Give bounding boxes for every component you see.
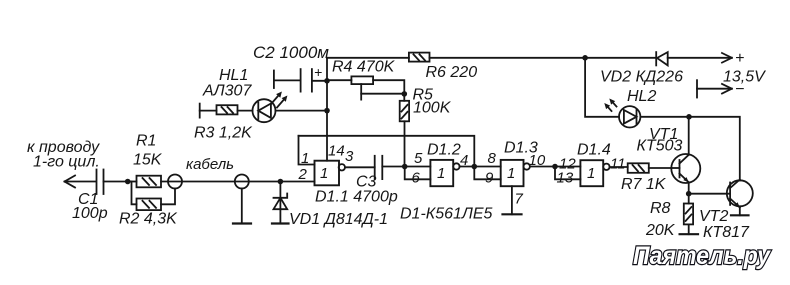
svg-text:+: +: [314, 64, 322, 80]
LED HL2: [604, 99, 689, 128]
wire D1.4 pin12: [555, 166, 580, 168]
svg-text:R2 4,3K: R2 4,3K: [119, 211, 178, 228]
svg-text:−: −: [735, 81, 744, 98]
node HL2/VT1 junction: [686, 114, 692, 120]
terminal bar C2 input: [273, 71, 275, 89]
svg-text:R3 1,2K: R3 1,2K: [194, 125, 253, 142]
svg-text:D1.2: D1.2: [427, 142, 461, 159]
svg-text:+: +: [735, 50, 744, 67]
svg-text:VD2 КД226: VD2 КД226: [600, 69, 683, 86]
svg-text:C3: C3: [356, 174, 377, 191]
ground bar under VD1: [272, 222, 289, 224]
svg-text:3: 3: [345, 148, 354, 165]
resistor R3: [217, 105, 253, 114]
node supply top junction: [582, 55, 588, 61]
node D1.2 output junction: [472, 164, 478, 170]
gate D1.4: [580, 160, 609, 186]
svg-text:R7 1K: R7 1K: [621, 176, 667, 193]
wire D1.3 pin8: [474, 166, 500, 168]
wire to R1: [128, 181, 137, 183]
resistor R4: [327, 76, 404, 99]
capacitor C3: [375, 156, 405, 179]
resistor R2 parallel branch: [132, 182, 176, 211]
wire HL2 node to VT2 collector corner: [689, 117, 740, 181]
svg-text:кабель: кабель: [186, 156, 234, 173]
wire main input line left segment: [65, 181, 97, 183]
svg-text:АЛ307: АЛ307: [202, 83, 252, 100]
wire supply rail vertical to pin 14: [326, 58, 328, 161]
svg-text:VT2: VT2: [699, 208, 728, 225]
ground bar under cable connector: [233, 222, 251, 224]
svg-text:R4 470K: R4 470K: [332, 59, 396, 76]
resistor R6: [409, 53, 430, 62]
svg-text:HL1: HL1: [219, 67, 248, 84]
node HL1 junction on rail: [324, 108, 330, 114]
svg-text:R6 220: R6 220: [426, 64, 478, 81]
svg-text:1: 1: [301, 150, 309, 167]
svg-text:VD1 Д814Д-1: VD1 Д814Д-1: [289, 211, 388, 228]
svg-text:6: 6: [412, 170, 421, 187]
svg-text:5: 5: [414, 150, 423, 167]
transistor VT1: [671, 117, 700, 194]
wire top rail to R6: [327, 57, 409, 59]
svg-text:D1.4: D1.4: [577, 142, 611, 159]
wire D1.1 pin1 feedback bracket: [299, 136, 315, 165]
gate D1.3: [501, 160, 530, 186]
svg-text:13,5V: 13,5V: [723, 69, 766, 86]
wire D1.1 output to C3: [345, 166, 375, 168]
gate D1.1: [315, 161, 345, 186]
ground bar pin7: [503, 213, 522, 215]
svg-text:1-го цил.: 1-го цил.: [33, 154, 100, 171]
node junction C1/R1/R2: [125, 179, 131, 185]
terminal bar R3 input: [199, 104, 201, 118]
svg-text:100p: 100p: [72, 205, 108, 222]
ground bar under R8: [680, 233, 698, 235]
node minus terminal: [697, 80, 732, 97]
ground bar under VT2 emitter: [731, 214, 749, 216]
transistor VT2: [689, 180, 753, 216]
resistor R5: [400, 94, 409, 167]
wire connector down lead: [241, 189, 243, 224]
svg-text:1: 1: [437, 165, 445, 182]
zener diode VD1: [274, 182, 288, 224]
wire R6 to supply node: [430, 57, 586, 59]
capacitor C2: [274, 69, 327, 92]
capacitor C1: [97, 170, 128, 195]
svg-text:1: 1: [587, 165, 595, 182]
svg-text:КТ503: КТ503: [637, 138, 683, 155]
node VD1 junction: [278, 179, 284, 185]
wire D1.2 pin6 bracket: [405, 167, 431, 180]
node D1.3 output junction: [552, 164, 558, 170]
node VT1 emitter junction: [686, 191, 692, 197]
svg-text:C2 1000м: C2 1000м: [253, 43, 329, 62]
svg-text:1: 1: [507, 165, 515, 182]
svg-text:10: 10: [529, 152, 546, 169]
connector circle right: [235, 175, 249, 189]
resistor R1: [137, 176, 315, 188]
svg-text:D1.1 4700p: D1.1 4700p: [315, 189, 398, 206]
connector circle left: [168, 175, 182, 189]
svg-text:1: 1: [320, 165, 328, 182]
LED HL1: [253, 92, 328, 123]
svg-text:11: 11: [610, 156, 626, 173]
svg-text:7: 7: [515, 191, 524, 208]
svg-text:2: 2: [298, 166, 308, 183]
node C3/R5/D1.2 inputs: [402, 164, 408, 170]
node R4/R5 tap: [402, 91, 408, 97]
resistor R8: [684, 194, 693, 235]
svg-text:9: 9: [485, 170, 494, 187]
wire D1.3 output: [530, 166, 555, 168]
svg-text:Паятель.ру: Паятель.ру: [633, 242, 771, 270]
svg-text:4: 4: [460, 152, 468, 169]
svg-text:20K: 20K: [645, 222, 676, 239]
svg-text:8: 8: [488, 150, 497, 167]
wire D1.3 pin9 bracket: [474, 167, 500, 180]
svg-text:HL2: HL2: [627, 88, 656, 105]
svg-text:R8: R8: [650, 200, 671, 217]
svg-text:D1-К561ЛЕ5: D1-К561ЛЕ5: [400, 206, 493, 223]
gate D1.2: [430, 160, 459, 186]
wire D1.2 output: [460, 166, 475, 168]
svg-text:15K: 15K: [133, 152, 163, 169]
node C2 junction on rail: [324, 78, 330, 84]
svg-text:КТ817: КТ817: [703, 224, 750, 241]
wire D1.2 pin5: [405, 166, 431, 168]
node input arrow terminal: [65, 176, 76, 188]
wire supply drop to HL2: [585, 58, 619, 117]
wire D1.4 pin13 bracket: [555, 167, 580, 180]
diode VD2: [585, 52, 732, 65]
wire R3 lead: [200, 110, 217, 112]
svg-text:R1: R1: [136, 133, 156, 150]
wire D1.3 pin7 ground lead: [511, 186, 513, 214]
wire feedback top line: [299, 136, 475, 167]
wire D1.4 output to R7: [610, 166, 628, 168]
node plus terminal arrow: [722, 53, 732, 63]
resistor R7: [628, 163, 672, 173]
svg-text:100K: 100K: [413, 100, 452, 117]
svg-text:14: 14: [328, 143, 345, 160]
svg-text:13: 13: [557, 170, 574, 187]
